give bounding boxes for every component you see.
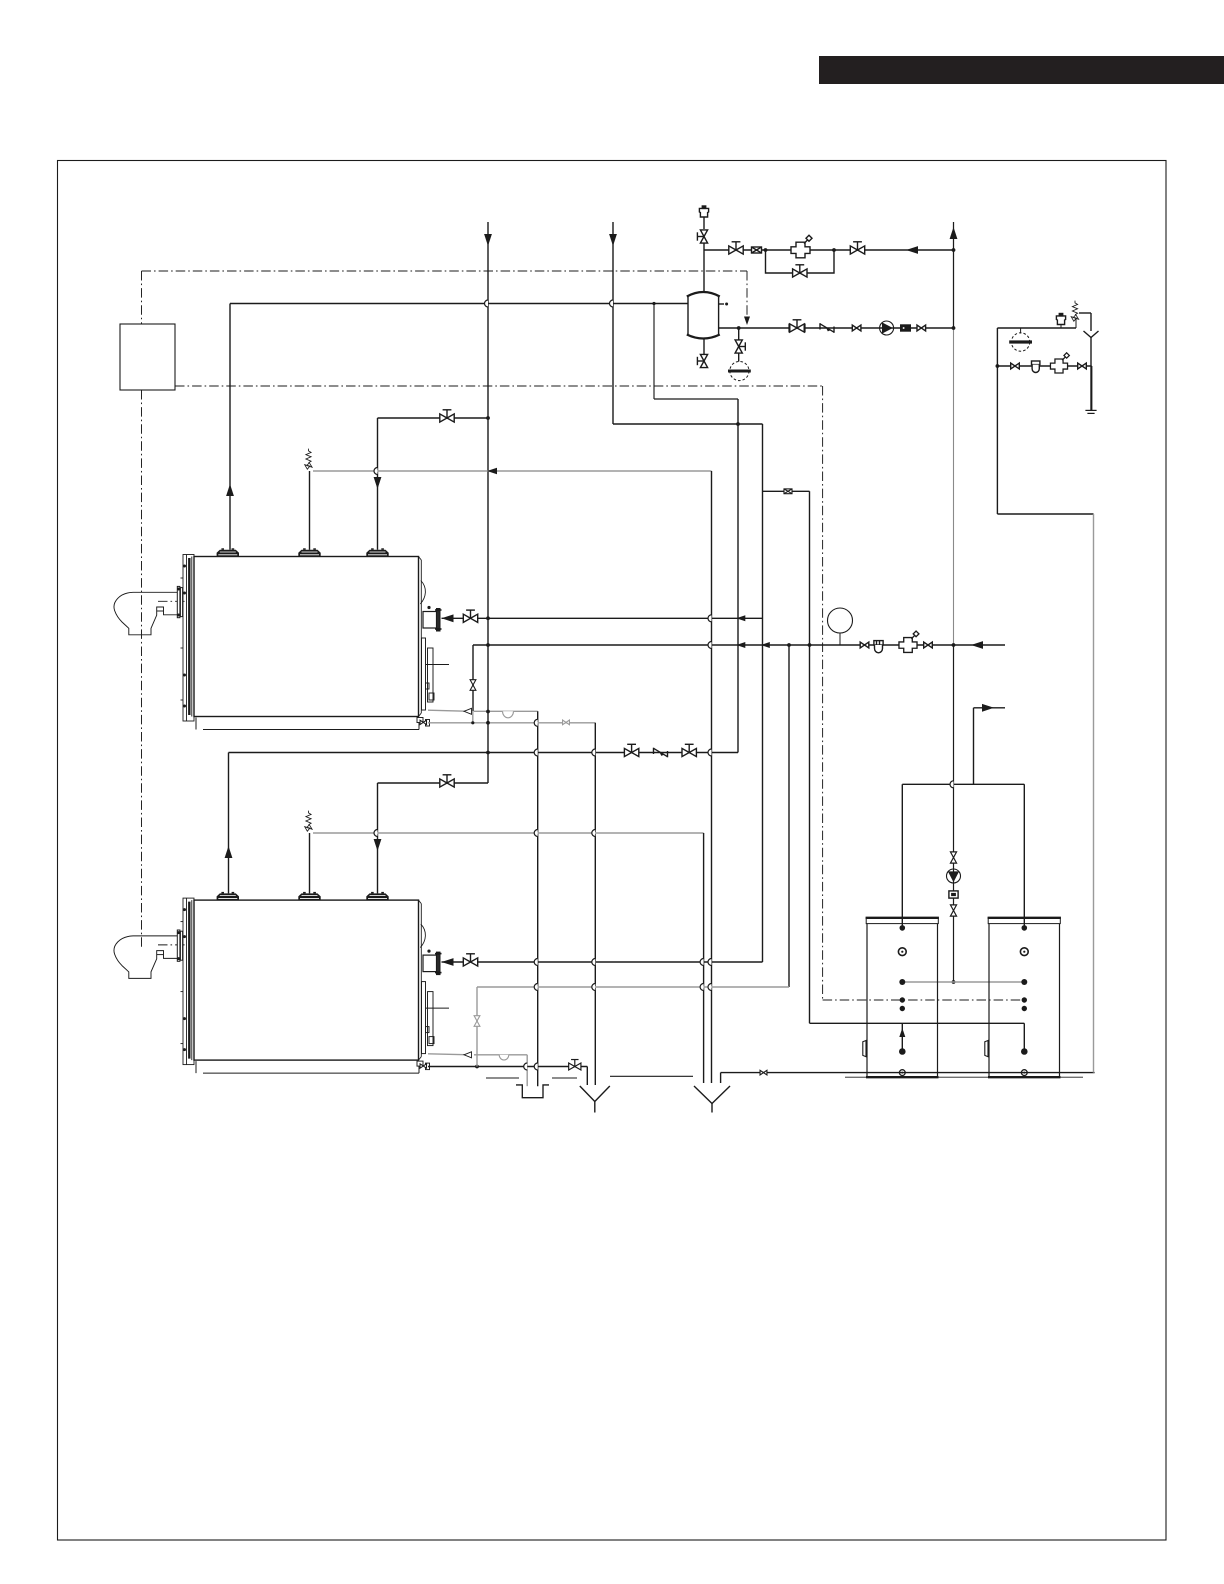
pipe tank1 riser — [901, 784, 903, 928]
prv 645 — [899, 631, 919, 652]
pipe relief drain vertical 711 — [711, 471, 713, 1083]
wire gray B1 drain connector — [472, 711, 474, 723]
arrow left 645 a — [736, 642, 745, 648]
pipe tank feed vertical 809 — [809, 491, 811, 1023]
expansion tank fill — [1020, 328, 1022, 334]
pipe tank drain drop — [720, 1073, 722, 1083]
boiler B2 front panel — [181, 898, 195, 1065]
arrow down riser A — [484, 234, 492, 246]
arrow left relief B1 — [487, 468, 497, 474]
node riser A at 645 — [486, 643, 490, 647]
gate valve bypass — [793, 265, 807, 277]
floor line between funnels — [610, 1075, 693, 1077]
pipe blend horizontal 645 — [473, 644, 1005, 646]
pipe B2 return drop — [377, 783, 379, 893]
floor tick left of trap — [486, 1077, 519, 1079]
node riser end between tanks — [952, 980, 956, 984]
boiler B2 vessel arc — [420, 924, 425, 948]
pipe expansion tank stem — [738, 353, 740, 362]
tank T2 port mid — [1021, 979, 1027, 985]
boiler B1 vessel arc — [420, 581, 425, 605]
gate valve pump line — [790, 320, 804, 332]
arrow control line end — [744, 317, 750, 326]
hop B2 return over relief — [374, 830, 378, 837]
node riser A at B1 drain — [486, 710, 490, 714]
node 809 at 645 — [808, 643, 812, 647]
pipe cold feed horizontal 514 — [997, 513, 1093, 515]
gate valve header 1 — [729, 242, 743, 254]
pipe fill drain tail — [1090, 338, 1092, 411]
pipe tank2 branch drop — [1023, 1023, 1025, 1051]
pipe B2 drain lower drop to funnel — [586, 1067, 588, 1086]
pipe vent stem upper — [703, 217, 705, 229]
tank T2 port bottom — [1021, 1070, 1027, 1076]
pipe tank feed horizontal 1023 — [810, 1022, 1025, 1024]
tank T2 port ring — [1020, 948, 1028, 956]
pipe supply takeoff vertical — [973, 708, 975, 785]
pipe vent stem lower — [703, 243, 705, 291]
wire control dash-dot right vertical — [822, 386, 824, 1000]
valve blend drop — [470, 680, 476, 691]
floor line — [845, 1076, 1083, 1078]
arrow down riser B — [609, 234, 617, 246]
black header bar — [819, 56, 1224, 84]
hop funnel drop at B2 supply — [592, 749, 595, 756]
valve blowdown 477 — [474, 1016, 480, 1027]
pipe B1 drain lower drop to funnel — [594, 723, 596, 1085]
pipe separator drain stem — [703, 339, 705, 354]
pipe riser system supply — [953, 222, 955, 328]
valve 645 small 1 — [860, 642, 869, 648]
boiler B2 bottom drain fitting — [417, 1061, 430, 1070]
air vent separator top — [699, 206, 708, 217]
node fill tee — [996, 364, 1000, 368]
valve B1 boiler drain cock — [420, 720, 426, 724]
wire gray B1 drain lower — [428, 722, 595, 724]
arrow open B1 drain — [464, 708, 472, 714]
wire gray B2 relief discharge — [313, 832, 704, 834]
pipe fill line 366 — [997, 365, 1091, 367]
boiler B2 right channel bracket — [422, 982, 450, 1054]
hop trap drop at B2 relief — [534, 830, 537, 837]
relief valve B2 — [305, 825, 312, 832]
hop relief drain at B2 supply — [708, 749, 712, 756]
node gray fill at B2 drain — [475, 1065, 479, 1069]
pipe boiler B1 supply riser — [229, 304, 231, 550]
hop trap drop at B2 inlet — [534, 959, 537, 966]
gate valve B2 supply 1 — [624, 744, 638, 756]
pipe sensor horizontal 491 — [763, 490, 810, 492]
pipe primary vertical 762 — [762, 424, 764, 962]
gate valve header 2 — [850, 242, 864, 254]
boiler B2 body — [194, 900, 419, 1060]
hop funnel drop at B2 relief — [592, 830, 595, 837]
pipe B2 supply riser — [228, 753, 230, 894]
pipe fill corner drop — [1091, 366, 1093, 410]
node riser supply at 645 — [952, 643, 956, 647]
tank T1 port top — [900, 925, 906, 931]
burner B1 blower — [114, 592, 177, 635]
valve B2 boiler drain cock — [420, 1064, 426, 1068]
boiler B2 top flange 1 — [217, 892, 239, 900]
wire control dash-dot burner 1 stub — [158, 600, 186, 602]
floor tick right of trap — [552, 1077, 577, 1079]
node riser A at B2 supply — [486, 751, 490, 755]
pipe expansion tank branch — [738, 328, 740, 340]
burner B2 mount flange — [177, 930, 182, 961]
control box — [120, 324, 175, 390]
valve expansion tank — [735, 340, 745, 353]
tank T1 port dashdot — [900, 997, 905, 1002]
wire control dash-dot top horizontal — [142, 270, 748, 272]
pipe blend left drop — [472, 645, 474, 711]
check valve pump line — [820, 323, 834, 333]
hop trap drop at B2 supply — [534, 749, 537, 756]
meter tank pump box — [949, 891, 958, 898]
valve tank drain — [760, 1070, 767, 1075]
pipe B2 drain upper drop to trap — [526, 1055, 528, 1086]
arrow flow left header — [906, 246, 918, 254]
pipe B2 inlet horizontal — [478, 961, 763, 963]
pipe B1 return drop — [377, 418, 379, 550]
tank T1 port ring — [898, 948, 906, 956]
hop drain 711 at B1 inlet — [708, 615, 712, 622]
pipe primary horizontal 424 — [613, 423, 763, 425]
burner B2 blower — [114, 936, 177, 979]
pump tank circulator — [947, 869, 961, 883]
pipe tank header horizontal 784 — [902, 783, 1024, 785]
boiler B2 right edge — [419, 900, 422, 1060]
flow switch pump line — [901, 325, 911, 331]
tank T2 port small — [1022, 1006, 1027, 1011]
valve fill 1 — [1011, 363, 1020, 369]
wire gray blowdown drop 477 — [476, 987, 478, 1067]
arrow down B1 return — [374, 477, 382, 489]
tank T2 port dashdot — [1022, 997, 1027, 1002]
tank T1 port lower — [899, 1048, 906, 1055]
node expansion branch — [737, 326, 741, 330]
pipe cold feed drop right — [1093, 514, 1095, 1073]
air vent fill — [1056, 314, 1065, 325]
valve vent — [697, 230, 707, 243]
arrow right supply takeoff — [982, 704, 994, 712]
page border frame — [58, 161, 1167, 1541]
arrow into B2 inlet — [442, 958, 454, 966]
arrow up B1 supply — [226, 484, 234, 496]
gate valve B2 return — [440, 775, 454, 787]
gate valve B1 inlet — [463, 610, 477, 622]
boiler B1 bottom drain fitting — [417, 718, 430, 727]
node pump line at riser — [952, 326, 956, 330]
wire control dash-dot left vertical to control box — [141, 271, 143, 324]
boiler B1 right inlet stub — [423, 612, 437, 629]
tank T1 port mid — [899, 979, 905, 985]
arrow down B2 return — [374, 839, 382, 851]
boiler B2 right inlet stub — [423, 955, 437, 972]
boiler B2 top flange 3 — [366, 892, 388, 900]
boiler B1 right edge — [419, 557, 422, 717]
gate valve B2 drain lower — [569, 1060, 581, 1070]
pipe separator outlet — [719, 327, 954, 329]
prv fill — [1050, 353, 1069, 373]
boiler B1 hinge bolts — [183, 565, 186, 568]
hop drain 711 at 645 — [708, 642, 712, 649]
valve tank pump upper — [950, 852, 956, 863]
tank T2 port top — [1022, 925, 1028, 931]
tank T2 bottom — [988, 1076, 1061, 1078]
dip B1 drain crossover — [503, 711, 514, 718]
pipe B2 supply horizontal — [229, 752, 739, 754]
hop riser A over B1 supply — [485, 300, 489, 307]
relief valve fill — [1075, 318, 1077, 328]
check valve B2 supply — [654, 748, 668, 758]
pipe tank drain line — [721, 1072, 1095, 1074]
valve gray B1 drain lower — [563, 720, 570, 725]
node header at riser — [952, 248, 956, 252]
node riser A at B1 drain lower — [486, 721, 490, 725]
pipe relief discharge fill — [1079, 312, 1091, 314]
pipe B2 relief riser — [309, 833, 311, 893]
arrow up B2 supply — [225, 846, 233, 858]
air separator tank — [687, 292, 720, 339]
meter sensor box — [784, 489, 792, 494]
funnel fill drain — [1084, 331, 1092, 338]
wire gray tank link 982 — [902, 981, 1024, 983]
boiler B1 top flange 1 — [217, 548, 239, 556]
dip B2 drain crossover — [499, 1055, 509, 1060]
pipe header valve row — [704, 249, 954, 251]
valve 645 small 2 — [924, 642, 933, 648]
trap floor drain — [516, 1085, 549, 1098]
wire control dash-dot burner 2 stub — [158, 944, 186, 946]
hop relief drains at B2 inlet — [700, 959, 703, 966]
pipe B1 return horizontal — [378, 417, 489, 419]
wire gray B1 relief discharge — [313, 470, 712, 472]
boiler B2 top flange 2 — [298, 892, 320, 900]
wire control dash-dot drop to pump line — [746, 271, 748, 317]
wire gray blowdown vertical 789 — [788, 645, 790, 987]
node bypass left — [764, 248, 768, 252]
valve tank pump lower — [950, 905, 956, 916]
pipe tank1 branch drop — [901, 1023, 903, 1051]
separator right plug — [719, 303, 724, 305]
tank T2 cap — [988, 918, 1060, 924]
boiler B1 base skirt — [196, 718, 419, 730]
meter boxx header — [752, 247, 762, 253]
pipe B2 drain lower — [428, 1066, 587, 1068]
tank T1 bottom — [866, 1076, 939, 1078]
tank T1 port bottom — [899, 1070, 905, 1076]
arrow up riser supply — [950, 227, 958, 239]
boiler B2 hinge bolts — [183, 908, 186, 911]
strainer 645 — [874, 641, 883, 653]
pressure gauge — [828, 608, 853, 633]
pipe riser system return B — [612, 222, 614, 424]
hop funnel drop at B2 inlet — [592, 959, 595, 966]
hop riser at tank header — [950, 781, 953, 788]
pipe riser system return A — [487, 222, 489, 783]
funnel F2 — [694, 1086, 712, 1104]
tank T2 body — [989, 924, 1060, 1077]
tank T1 side flange — [863, 1041, 866, 1057]
boiler B1 body — [194, 557, 419, 717]
node riser A at B1 return — [486, 416, 490, 420]
pipe tank2 riser — [1023, 784, 1025, 928]
pipe fill header drop — [996, 328, 998, 514]
boiler B1 top flange 3 — [366, 548, 388, 556]
wire control dash-dot to tank 2 port — [823, 999, 1025, 1001]
node 738 cross header — [736, 422, 740, 426]
hop relief drains at 987 — [700, 984, 703, 991]
pipe relief drain vertical 703 — [703, 833, 705, 1083]
arrow left 645 main — [971, 641, 983, 649]
hop trap drop at B1 drain lower — [534, 719, 537, 726]
wire gray B2 drain upper — [428, 1054, 470, 1055]
boiler B2 base skirt — [196, 1061, 419, 1073]
arrow into B1 inlet — [442, 614, 454, 622]
pipe B2 return horizontal — [378, 782, 489, 784]
gate valve B2 supply 2 — [682, 744, 696, 756]
wire gray B1 drain upper — [428, 710, 470, 711]
node riser A at B1 inlet — [486, 616, 490, 620]
arrow left 645 b — [761, 642, 770, 648]
pump system circulator — [880, 321, 894, 335]
wire control dash-dot mid horizontal — [175, 385, 823, 387]
valve pump line small 2 — [917, 325, 926, 331]
pipe primary vertical 738 — [737, 399, 739, 753]
backflow preventer fill — [1032, 361, 1040, 373]
pipe boiler B1 supply horizontal — [230, 303, 688, 305]
pipe fill header 328 — [997, 327, 1076, 329]
boiler B1 front panel — [181, 555, 195, 722]
funnel F1 — [580, 1086, 595, 1102]
burner B1 mount flange — [177, 586, 182, 617]
pipe supply takeoff stub — [974, 707, 1006, 709]
drain termination ticks — [1085, 409, 1096, 411]
tank T2 port lower — [1021, 1048, 1028, 1055]
boiler B1 right channel bracket — [422, 638, 450, 710]
gate valve B1 return — [440, 410, 454, 422]
wire control dash-dot vertical to burners — [141, 390, 143, 949]
hop riser B over B1 supply — [610, 300, 613, 307]
relief valve B1 — [305, 463, 312, 470]
wire gray blowdown horizontal 987 — [477, 986, 789, 988]
gate valve B2 inlet — [463, 954, 477, 966]
hop B1 return over relief — [374, 468, 378, 475]
node gray at supply line — [652, 302, 655, 305]
tank T1 port small — [900, 1006, 905, 1011]
pipe bypass loop — [766, 250, 835, 273]
prv header — [791, 235, 812, 257]
tank T1 body — [867, 924, 938, 1077]
hop trap drop at 987 — [534, 984, 537, 991]
valve fill 2 — [1078, 363, 1087, 369]
arrow left B1 inlet flow — [736, 615, 745, 621]
tank T2 side flange — [985, 1041, 988, 1057]
boiler B1 top flange 2 — [298, 548, 320, 556]
node bypass right — [832, 248, 836, 252]
tank T1 cap — [866, 918, 938, 924]
pipe B1 relief riser — [309, 471, 311, 550]
expansion tank system — [730, 361, 749, 380]
pipe B1 inlet horizontal — [478, 617, 763, 619]
node 789 at 645 — [787, 643, 791, 647]
valve pump line small 1 — [852, 325, 861, 331]
arrow up tank1 branch — [899, 1028, 905, 1037]
pipe B1 drain upper to trap — [474, 710, 538, 712]
arrow open B2 drain — [464, 1052, 472, 1058]
valve separator drain — [697, 354, 707, 367]
wire gray separator return drop — [654, 305, 738, 400]
